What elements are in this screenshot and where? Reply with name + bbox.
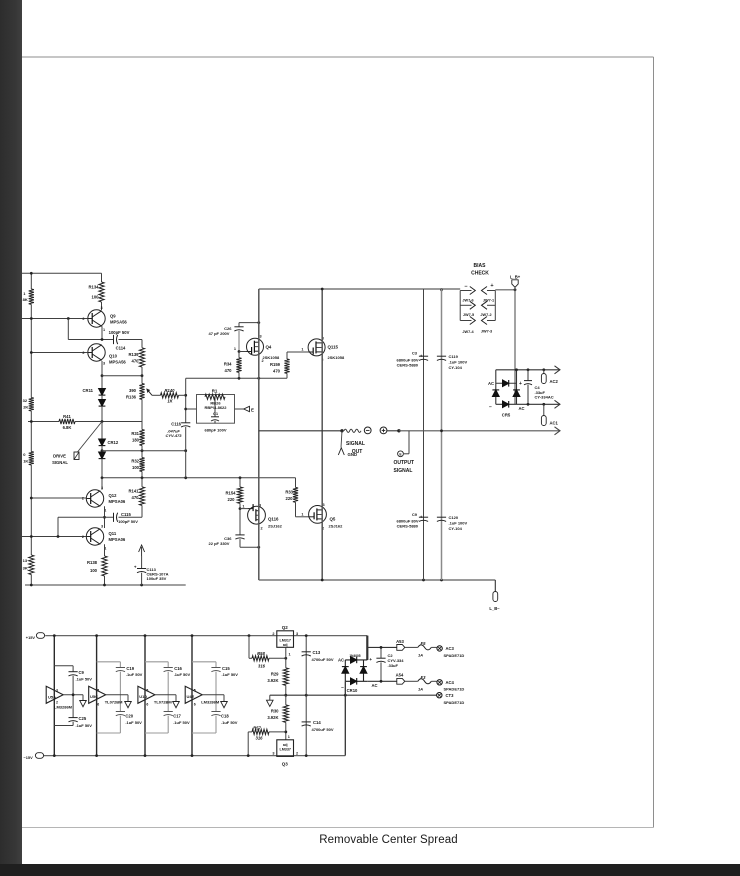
svg-text:C120: C120 <box>449 515 459 520</box>
svg-text:100pF 50V: 100pF 50V <box>118 519 138 524</box>
svg-text:1: 1 <box>288 735 290 739</box>
svg-text:1: 1 <box>242 504 244 508</box>
svg-text:SIGNAL: SIGNAL <box>394 468 413 474</box>
svg-text:2K: 2K <box>23 405 28 410</box>
svg-text:−15V: −15V <box>24 755 34 760</box>
svg-text:MPSA06: MPSA06 <box>109 499 126 504</box>
svg-text:47 pF 200V: 47 pF 200V <box>209 331 230 336</box>
svg-text:1: 1 <box>103 328 105 332</box>
svg-text:CY-104: CY-104 <box>449 365 463 370</box>
svg-text:AC2: AC2 <box>550 379 559 384</box>
svg-text:C115: C115 <box>121 512 131 517</box>
svg-text:U4E: U4E <box>187 694 195 699</box>
svg-text:AC3: AC3 <box>446 646 455 651</box>
svg-text:470: 470 <box>273 369 281 374</box>
svg-text:AC: AC <box>372 683 378 688</box>
svg-text:R141: R141 <box>128 489 139 494</box>
svg-text:JW7-5: JW7-5 <box>463 313 474 317</box>
svg-text:AC1: AC1 <box>550 421 559 426</box>
svg-text:U5A: U5A <box>48 694 56 699</box>
svg-text:LM337: LM337 <box>279 748 290 752</box>
svg-text:3.92K: 3.92K <box>267 678 278 683</box>
svg-text:OUT: OUT <box>352 449 363 455</box>
svg-text:Q11: Q11 <box>109 531 117 536</box>
svg-text:4700uF 50V: 4700uF 50V <box>312 657 334 662</box>
svg-text:Q4: Q4 <box>266 345 272 350</box>
svg-text:+: + <box>134 565 137 570</box>
svg-text:JW7-1: JW7-1 <box>483 299 494 303</box>
svg-text:R32: R32 <box>131 459 139 464</box>
svg-text:8K: 8K <box>23 297 28 302</box>
svg-text:Q9: Q9 <box>110 314 116 319</box>
svg-text:R139: R139 <box>128 352 139 357</box>
svg-text:2: 2 <box>82 497 84 501</box>
svg-text:DRIVE: DRIVE <box>53 454 66 459</box>
svg-text:220: 220 <box>228 497 236 502</box>
svg-text:.1uF 50V: .1uF 50V <box>76 677 93 682</box>
svg-text:C25: C25 <box>79 716 87 721</box>
svg-text:2SK1058: 2SK1058 <box>328 355 345 360</box>
svg-text:JW7-2: JW7-2 <box>480 313 491 317</box>
svg-text:100uF 35V: 100uF 35V <box>147 576 167 581</box>
svg-text:C15: C15 <box>222 666 230 671</box>
svg-text:5: 5 <box>146 689 148 693</box>
svg-text:+: + <box>519 381 522 387</box>
svg-text:R1: R1 <box>212 388 218 393</box>
svg-text:3: 3 <box>272 752 274 756</box>
svg-text:2: 2 <box>272 632 274 636</box>
svg-text:3: 3 <box>56 689 58 693</box>
svg-text:+15V: +15V <box>26 635 36 640</box>
svg-text:R30: R30 <box>271 709 279 714</box>
svg-text:6: 6 <box>194 703 196 707</box>
svg-text:Q116: Q116 <box>268 517 279 522</box>
svg-text:Q10: Q10 <box>109 354 118 359</box>
svg-text:.1uF 50V: .1uF 50V <box>76 723 93 728</box>
svg-text:R136: R136 <box>126 395 137 400</box>
svg-text:C18: C18 <box>221 714 229 719</box>
svg-text:R140: R140 <box>164 388 175 393</box>
svg-text:OUTPUT: OUTPUT <box>394 460 415 466</box>
svg-text:R138: R138 <box>87 560 98 565</box>
svg-text:C13: C13 <box>313 650 321 655</box>
svg-text:2: 2 <box>82 351 84 355</box>
svg-text:MPSA56: MPSA56 <box>109 360 126 365</box>
svg-text:MPSA06: MPSA06 <box>109 537 126 542</box>
svg-text:4700uF 50V: 4700uF 50V <box>312 727 334 732</box>
svg-text:3.92K: 3.92K <box>267 715 278 720</box>
svg-text:316: 316 <box>258 664 266 669</box>
svg-text:L_B+: L_B+ <box>510 274 521 279</box>
svg-text:2: 2 <box>296 752 298 756</box>
svg-text:100: 100 <box>132 465 140 470</box>
svg-text:Q115: Q115 <box>328 345 339 350</box>
svg-text:JW7-3: JW7-3 <box>481 330 492 334</box>
svg-text:2: 2 <box>82 535 84 539</box>
svg-text:CERS-5880: CERS-5880 <box>397 363 419 368</box>
svg-text:6: 6 <box>146 703 148 707</box>
svg-text:C20: C20 <box>125 714 133 719</box>
svg-text:3: 3 <box>101 525 103 529</box>
svg-text:3: 3 <box>101 306 103 310</box>
svg-text:.33uF: .33uF <box>388 663 399 668</box>
svg-text:3: 3 <box>296 632 298 636</box>
svg-text:100: 100 <box>92 295 100 300</box>
svg-text:2: 2 <box>261 527 263 531</box>
svg-text:C14: C14 <box>313 720 321 725</box>
svg-text:TL072BM: TL072BM <box>105 700 123 705</box>
svg-text:1: 1 <box>301 348 303 352</box>
svg-text:470: 470 <box>225 368 233 373</box>
svg-text:R154: R154 <box>225 491 236 496</box>
svg-text:F5: F5 <box>421 641 427 646</box>
svg-text:.1uF 50V: .1uF 50V <box>221 720 238 725</box>
svg-text:R41: R41 <box>63 414 71 419</box>
svg-text:CHECK: CHECK <box>471 271 489 277</box>
svg-text:R57: R57 <box>253 725 261 730</box>
svg-text:32: 32 <box>23 398 28 403</box>
svg-text:AC: AC <box>338 657 344 662</box>
svg-text:180: 180 <box>132 438 140 443</box>
svg-text:CT3: CT3 <box>446 693 455 698</box>
svg-text:A53: A53 <box>396 639 404 644</box>
svg-text:LM3286M: LM3286M <box>201 700 220 705</box>
svg-text:R58: R58 <box>257 651 265 656</box>
svg-text:C17: C17 <box>173 714 181 719</box>
svg-text:R31: R31 <box>131 431 139 436</box>
svg-text:1A: 1A <box>418 687 423 692</box>
svg-text:RBP/4-8622: RBP/4-8622 <box>204 405 227 410</box>
svg-text:MPSA56: MPSA56 <box>110 320 127 325</box>
svg-text:1: 1 <box>301 512 303 516</box>
svg-text:SPADE71D: SPADE71D <box>444 687 465 692</box>
svg-text:SIGNAL: SIGNAL <box>346 441 365 447</box>
svg-text:2: 2 <box>82 317 84 321</box>
svg-text:C116: C116 <box>171 421 181 426</box>
svg-text:−: − <box>464 284 467 290</box>
svg-text:100: 100 <box>90 568 98 573</box>
svg-text:2SK1058: 2SK1058 <box>263 355 280 360</box>
svg-text:TL072BM: TL072BM <box>154 700 172 705</box>
svg-text:5: 5 <box>97 689 99 693</box>
svg-text:CR11: CR11 <box>83 388 94 393</box>
svg-text:U5C: U5C <box>90 694 98 699</box>
svg-text:1: 1 <box>234 347 236 351</box>
svg-text:CY-104: CY-104 <box>449 526 463 531</box>
svg-text:.1uF 100V: .1uF 100V <box>449 521 468 526</box>
svg-text:.1uF 50V: .1uF 50V <box>125 720 142 725</box>
svg-text:390: 390 <box>129 388 137 393</box>
svg-text:C3: C3 <box>412 351 418 356</box>
svg-text:Q12: Q12 <box>109 493 118 498</box>
svg-text:L_B−: L_B− <box>489 606 500 611</box>
svg-text:F3: F3 <box>421 675 427 680</box>
svg-text:.1uF 50V: .1uF 50V <box>222 672 239 677</box>
svg-text:2SJ162: 2SJ162 <box>329 524 344 529</box>
svg-text:470: 470 <box>132 359 140 364</box>
svg-text:+: + <box>490 283 493 289</box>
svg-text:R159: R159 <box>270 362 281 367</box>
svg-text:3: 3 <box>260 335 262 339</box>
svg-text:Q2: Q2 <box>282 625 289 630</box>
svg-text:R34: R34 <box>224 362 232 367</box>
svg-text:6.8K: 6.8K <box>63 425 72 430</box>
svg-text:13: 13 <box>23 558 28 563</box>
svg-text:SPADE71D: SPADE71D <box>444 653 465 658</box>
svg-text:AC: AC <box>488 381 494 386</box>
svg-text:1K: 1K <box>23 459 28 464</box>
svg-text:2: 2 <box>56 701 58 705</box>
svg-text:+: + <box>420 354 423 359</box>
svg-text:AC4: AC4 <box>446 680 455 685</box>
svg-text:adj: adj <box>283 643 288 647</box>
svg-text:Q3: Q3 <box>282 762 289 767</box>
svg-text:A54: A54 <box>396 673 404 678</box>
svg-text:2: 2 <box>262 359 264 363</box>
svg-text:C9: C9 <box>79 670 85 675</box>
svg-text:100pF 50V: 100pF 50V <box>109 330 130 335</box>
svg-text:C9: C9 <box>412 512 418 517</box>
svg-text:5: 5 <box>194 689 196 693</box>
svg-text:3: 3 <box>103 362 105 366</box>
svg-text:+: + <box>420 515 423 520</box>
svg-text:C119: C119 <box>449 354 459 359</box>
svg-text:316: 316 <box>256 736 264 741</box>
svg-text:CR5: CR5 <box>502 413 511 418</box>
svg-text:C1: C1 <box>213 411 219 416</box>
svg-text:R134: R134 <box>88 285 99 290</box>
svg-text:CERS-5880: CERS-5880 <box>397 524 419 529</box>
svg-text:JW7-4: JW7-4 <box>462 330 474 334</box>
svg-text:1: 1 <box>289 653 291 657</box>
svg-text:2SJ162: 2SJ162 <box>268 524 283 529</box>
svg-text:CR10: CR10 <box>347 688 358 693</box>
svg-text:E: E <box>251 407 254 412</box>
svg-text:LM3286M: LM3286M <box>54 705 73 710</box>
svg-text:1N4005: 1N4005 <box>349 654 360 658</box>
svg-text:1A: 1A <box>418 653 423 658</box>
svg-text:adj: adj <box>283 743 288 747</box>
svg-text:R29: R29 <box>271 672 279 677</box>
svg-text:CY-334AC: CY-334AC <box>535 395 554 400</box>
svg-text:C19: C19 <box>126 666 134 671</box>
svg-text:C16: C16 <box>174 666 182 671</box>
svg-text:−: − <box>489 404 492 410</box>
svg-text:.1uF 50V: .1uF 50V <box>126 672 143 677</box>
svg-text:AC: AC <box>519 406 525 411</box>
svg-text:LM317: LM317 <box>279 639 290 643</box>
svg-text:U1D: U1D <box>139 694 147 699</box>
svg-text:220: 220 <box>286 496 294 501</box>
svg-text:C114: C114 <box>116 346 126 351</box>
svg-text:6: 6 <box>97 703 99 707</box>
svg-text:3K: 3K <box>23 566 28 571</box>
svg-text:.1uF 100V: .1uF 100V <box>449 360 468 365</box>
svg-text:CYV-473: CYV-473 <box>165 433 182 438</box>
svg-text:CR12: CR12 <box>108 440 119 445</box>
svg-text:+: + <box>369 658 372 663</box>
svg-text:470: 470 <box>132 495 140 500</box>
svg-text:.1uF 50V: .1uF 50V <box>173 720 190 725</box>
svg-text:BIAS: BIAS <box>474 263 487 269</box>
svg-text:R33: R33 <box>285 490 293 495</box>
svg-text:22 pF 330V: 22 pF 330V <box>209 541 230 546</box>
svg-text:SPADE71D: SPADE71D <box>444 700 465 705</box>
svg-text:SIGNAL: SIGNAL <box>52 460 68 465</box>
svg-text:−: − <box>341 686 344 691</box>
svg-text:.1uF 50V: .1uF 50V <box>174 672 191 677</box>
svg-text:680pF 100V: 680pF 100V <box>204 427 226 432</box>
svg-text:JW7-6: JW7-6 <box>462 299 473 303</box>
svg-text:Q5: Q5 <box>330 517 336 522</box>
